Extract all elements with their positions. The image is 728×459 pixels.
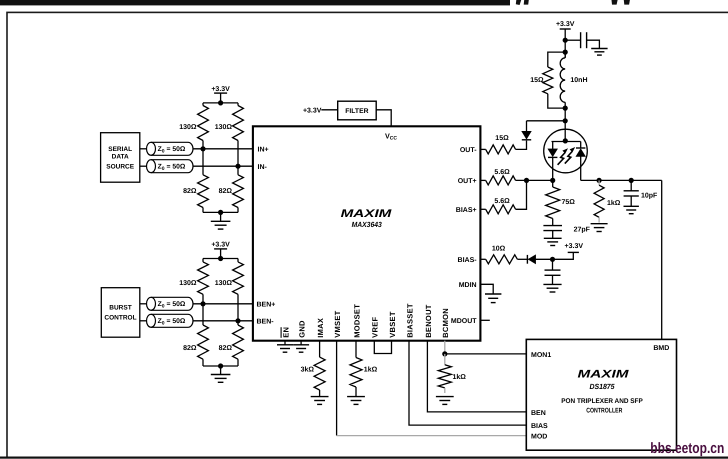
resistor R4 82ohm xyxy=(237,166,239,175)
wire T2 to IN- xyxy=(193,165,253,167)
wire PD node xyxy=(581,179,662,181)
svg-text:SOURCE: SOURCE xyxy=(106,163,134,170)
serial data source box xyxy=(101,133,140,183)
svg-text:bbs.eetop.cn: bbs.eetop.cn xyxy=(650,440,724,457)
node BCMON junction xyxy=(442,351,447,356)
node IN- junction xyxy=(235,164,240,169)
svg-text:MON1: MON1 xyxy=(531,352,551,359)
resistor R14 1kohm xyxy=(598,180,600,185)
svg-text:VMSET: VMSET xyxy=(333,310,342,337)
wire to laser anode node xyxy=(564,108,566,141)
transmission line T4 Z0=50ohm xyxy=(147,314,156,327)
wire serial to coax T1 xyxy=(140,148,147,150)
wire VMSET to MOD xyxy=(336,341,338,436)
node OUT- clamp junction xyxy=(563,118,568,123)
svg-text:82Ω: 82Ω xyxy=(183,345,197,352)
svg-text:1kΩ: 1kΩ xyxy=(607,199,621,207)
resistor R7 82ohm xyxy=(202,304,204,325)
svg-text:OUT+: OUT+ xyxy=(458,178,477,185)
wire input bias top rail xyxy=(203,102,238,104)
svg-text:BEN+: BEN+ xyxy=(257,302,276,309)
resistor R11 5.6ohm xyxy=(486,176,516,185)
svg-text:DATA: DATA xyxy=(112,154,129,161)
ground 1kohm xyxy=(591,223,608,225)
node OUT+/BIAS+ junction xyxy=(524,178,529,183)
wire input bias bottom rail xyxy=(203,211,238,213)
svg-text:BIAS+: BIAS+ xyxy=(456,207,477,214)
svg-text:Z0 = 50Ω: Z0 = 50Ω xyxy=(158,301,186,309)
svg-text:+3.3V: +3.3V xyxy=(303,107,322,114)
node bottom rail xyxy=(218,210,223,215)
wire BIAS- stub xyxy=(480,258,485,260)
ground BCMON 1kohm xyxy=(436,396,454,398)
wire cap to ground xyxy=(587,40,600,48)
svg-text:CONTROLLER: CONTROLLER xyxy=(586,408,622,415)
wire laser anode entry xyxy=(564,129,566,141)
wire supply down xyxy=(564,29,566,58)
transmission line T2 Z0=50ohm xyxy=(147,160,156,173)
svg-text:DS1875: DS1875 xyxy=(589,382,615,391)
svg-text:1kΩ: 1kΩ xyxy=(364,366,378,374)
svg-text:BCMON: BCMON xyxy=(441,308,450,338)
svg-text:1kΩ: 1kΩ xyxy=(453,373,467,381)
resistor R9 15ohm shunt xyxy=(548,52,565,67)
wire OUT- stub xyxy=(480,148,485,150)
wire VREF to VBSET xyxy=(374,341,391,354)
wire T4 to BEN- xyxy=(193,320,253,322)
capacitor C3 10pF xyxy=(630,180,632,190)
svg-text:OUT-: OUT- xyxy=(460,147,477,154)
node burst rail xyxy=(218,256,223,261)
resistor R18 1kohm on BCMON xyxy=(444,354,446,365)
svg-text:15Ω: 15Ω xyxy=(495,135,509,142)
node 15ohm/10nH top junction xyxy=(563,50,568,55)
ground MODSET 1kohm xyxy=(347,396,365,398)
wire BCMON down xyxy=(444,341,446,354)
node 10pF junction xyxy=(629,178,634,183)
svg-text:27pF: 27pF xyxy=(574,227,591,234)
svg-text:Z0 = 50Ω: Z0 = 50Ω xyxy=(158,164,186,172)
wire BENOUT to BEN xyxy=(427,341,526,412)
svg-text:Z0 = 50Ω: Z0 = 50Ω xyxy=(158,146,186,154)
svg-text:MOD: MOD xyxy=(531,434,547,441)
ground bypass cap xyxy=(591,48,607,50)
node supply-cap junction xyxy=(563,38,568,43)
svg-text:MAXIM: MAXIM xyxy=(578,369,630,381)
resistor R6 130ohm xyxy=(237,259,239,262)
wire laser internal bar xyxy=(552,141,581,143)
wire OUT+ to laser cathode xyxy=(516,179,553,181)
wire OUT+ stub xyxy=(480,179,485,181)
node laser internal junction xyxy=(563,138,568,143)
svg-text:SERIAL: SERIAL xyxy=(108,146,132,153)
svg-text:VREF: VREF xyxy=(371,316,380,337)
resistor R13 75ohm xyxy=(552,180,554,187)
ground EN xyxy=(284,341,286,345)
resistor R10 15ohm xyxy=(486,145,516,154)
svg-text:BIAS: BIAS xyxy=(531,423,548,430)
light arrow 2 xyxy=(565,151,572,163)
wire node to +3.3V xyxy=(553,252,574,259)
svg-text:10nH: 10nH xyxy=(570,77,587,84)
svg-text:10Ω: 10Ω xyxy=(492,245,506,252)
svg-text:10pF: 10pF xyxy=(641,192,658,199)
header bar (cut-off page title) xyxy=(0,0,510,5)
wire clamp to anode node xyxy=(527,120,566,122)
svg-text:3kΩ: 3kΩ xyxy=(301,366,315,374)
wire BIAS+ stub xyxy=(480,208,485,210)
wire +3.3V to filter xyxy=(321,109,337,111)
capacitor C2 27pF xyxy=(543,225,562,227)
resistor R17 1kohm on MODSET xyxy=(355,341,357,358)
svg-text:82Ω: 82Ω xyxy=(219,345,233,352)
wire to bypass cap xyxy=(565,39,580,41)
ground MDIN xyxy=(485,293,501,295)
title descender fragment p2 xyxy=(612,0,618,5)
svg-text:MDOUT: MDOUT xyxy=(451,318,477,325)
wire 15ohm to clamp diode xyxy=(516,141,527,150)
svg-text:MAX3643: MAX3643 xyxy=(352,220,383,229)
svg-text:BIASSET: BIASSET xyxy=(405,303,414,338)
svg-text:FILTER: FILTER xyxy=(345,108,368,115)
node BEN- junction xyxy=(235,318,240,323)
wire diode to node xyxy=(536,258,553,260)
svg-text:BEN: BEN xyxy=(531,410,546,417)
svg-text:15Ω: 15Ω xyxy=(530,77,544,84)
wire T3 to BEN+ xyxy=(193,303,253,305)
svg-text:VBSET: VBSET xyxy=(388,311,397,338)
svg-text:VCC: VCC xyxy=(385,131,397,141)
svg-text:BIAS-: BIAS- xyxy=(458,257,478,264)
ground burst bias xyxy=(220,366,222,375)
svg-text:82Ω: 82Ω xyxy=(183,188,197,195)
wire BIAS+ up to OUT+ node xyxy=(516,180,527,209)
transmission line T3 Z0=50ohm xyxy=(147,297,156,310)
svg-text:+3.3V: +3.3V xyxy=(556,21,575,28)
resistor R1 130ohm xyxy=(202,103,204,106)
inductor L1 10nH xyxy=(564,52,566,58)
svg-text:75Ω: 75Ω xyxy=(562,199,576,206)
node bias rail xyxy=(218,100,223,105)
light arrow 1 xyxy=(558,153,565,165)
ground C4 xyxy=(552,275,554,284)
burst control box xyxy=(101,288,140,338)
ground 27pF xyxy=(552,231,554,239)
title descender fragment p3 xyxy=(624,0,630,5)
wire 10ohm to diode xyxy=(517,258,528,260)
svg-text:MDIN: MDIN xyxy=(459,282,477,289)
svg-text:GND: GND xyxy=(298,320,307,338)
ground GND xyxy=(300,341,302,345)
resistor R5 130ohm xyxy=(202,259,204,262)
node burst bottom rail xyxy=(218,363,223,368)
svg-text:BMD: BMD xyxy=(653,345,669,352)
ground input bias xyxy=(220,212,222,221)
svg-text:130Ω: 130Ω xyxy=(179,280,197,287)
wire filter to VCC pin xyxy=(376,110,391,127)
svg-text:5.6Ω: 5.6Ω xyxy=(494,169,510,176)
resistor R16 3kohm on IMAX xyxy=(319,341,321,357)
wire serial to coax T2 xyxy=(140,165,147,167)
node 1k junction xyxy=(597,178,602,183)
capacitor C4 xyxy=(552,259,554,270)
svg-text:+3.3V: +3.3V xyxy=(211,86,230,93)
diode D4 xyxy=(528,255,535,264)
wire PD to BMD xyxy=(661,180,663,339)
svg-text:MAXIM: MAXIM xyxy=(341,208,393,220)
resistor R3 82ohm xyxy=(202,149,204,175)
+3.3V supply BIAS- xyxy=(568,251,579,253)
resistor R15 10ohm xyxy=(486,255,518,264)
svg-text:+3.3V: +3.3V xyxy=(211,241,230,248)
diode D3 clamp xyxy=(522,131,531,139)
wire burst bias top rail xyxy=(203,258,238,260)
photodiode D2 xyxy=(580,142,582,149)
node IN+ junction xyxy=(200,146,205,151)
laser diode D1 xyxy=(552,142,554,149)
svg-text:MODSET: MODSET xyxy=(352,304,361,338)
title descender fragment p1 xyxy=(524,0,529,5)
capacitor C1 bypass xyxy=(580,32,582,48)
svg-text:5.6Ω: 5.6Ω xyxy=(494,198,510,205)
node BIAS- junction xyxy=(550,257,555,262)
laser package circle xyxy=(544,129,588,173)
title descender fragment y xyxy=(516,0,521,5)
node BEN+ junction xyxy=(200,301,205,306)
svg-text:130Ω: 130Ω xyxy=(215,124,233,131)
resistor R2 130ohm xyxy=(237,103,239,106)
svg-text:82Ω: 82Ω xyxy=(219,188,233,195)
svg-text:CONTROL: CONTROL xyxy=(104,315,136,322)
wire burst bias bottom rail xyxy=(203,365,238,367)
svg-text:130Ω: 130Ω xyxy=(179,124,197,131)
wire BCMON to MON1 xyxy=(445,353,527,355)
ground 10pF xyxy=(630,196,632,206)
resistor R8 82ohm xyxy=(237,321,239,325)
node 15ohm/10nH bottom junction xyxy=(563,106,568,111)
svg-text:PON TRIPLEXER AND SFP: PON TRIPLEXER AND SFP xyxy=(561,398,643,405)
svg-text:IMAX: IMAX xyxy=(316,318,325,338)
resistor R12 5.6ohm xyxy=(486,205,516,214)
svg-text:IN+: IN+ xyxy=(258,147,269,154)
ground 3kohm xyxy=(311,396,329,398)
IC U2 DS1875 controller body xyxy=(526,339,676,450)
svg-text:IN-: IN- xyxy=(258,164,268,171)
filter box xyxy=(338,101,377,120)
wire MDOUT stub xyxy=(480,319,489,321)
op-amp U1 MAX3643 laser driver IC body xyxy=(253,126,481,340)
wire burst to coax T3 xyxy=(140,303,147,305)
wire T1 to IN+ xyxy=(193,148,253,150)
svg-text:BEN-: BEN- xyxy=(257,319,275,326)
transmission line T1 Z0=50ohm xyxy=(147,142,156,155)
svg-text:130Ω: 130Ω xyxy=(215,280,233,287)
svg-text:BENOUT: BENOUT xyxy=(424,304,433,338)
svg-text:BURST: BURST xyxy=(109,304,131,311)
svg-text:Z0 = 50Ω: Z0 = 50Ω xyxy=(158,318,186,326)
wire BIASSET to BIAS xyxy=(409,341,526,425)
svg-text:EN: EN xyxy=(281,327,290,338)
svg-text:+3.3V: +3.3V xyxy=(565,243,584,250)
wire burst to coax T4 xyxy=(140,320,147,322)
node laser cathode junction xyxy=(550,178,555,183)
wire MDIN stub xyxy=(480,284,493,294)
